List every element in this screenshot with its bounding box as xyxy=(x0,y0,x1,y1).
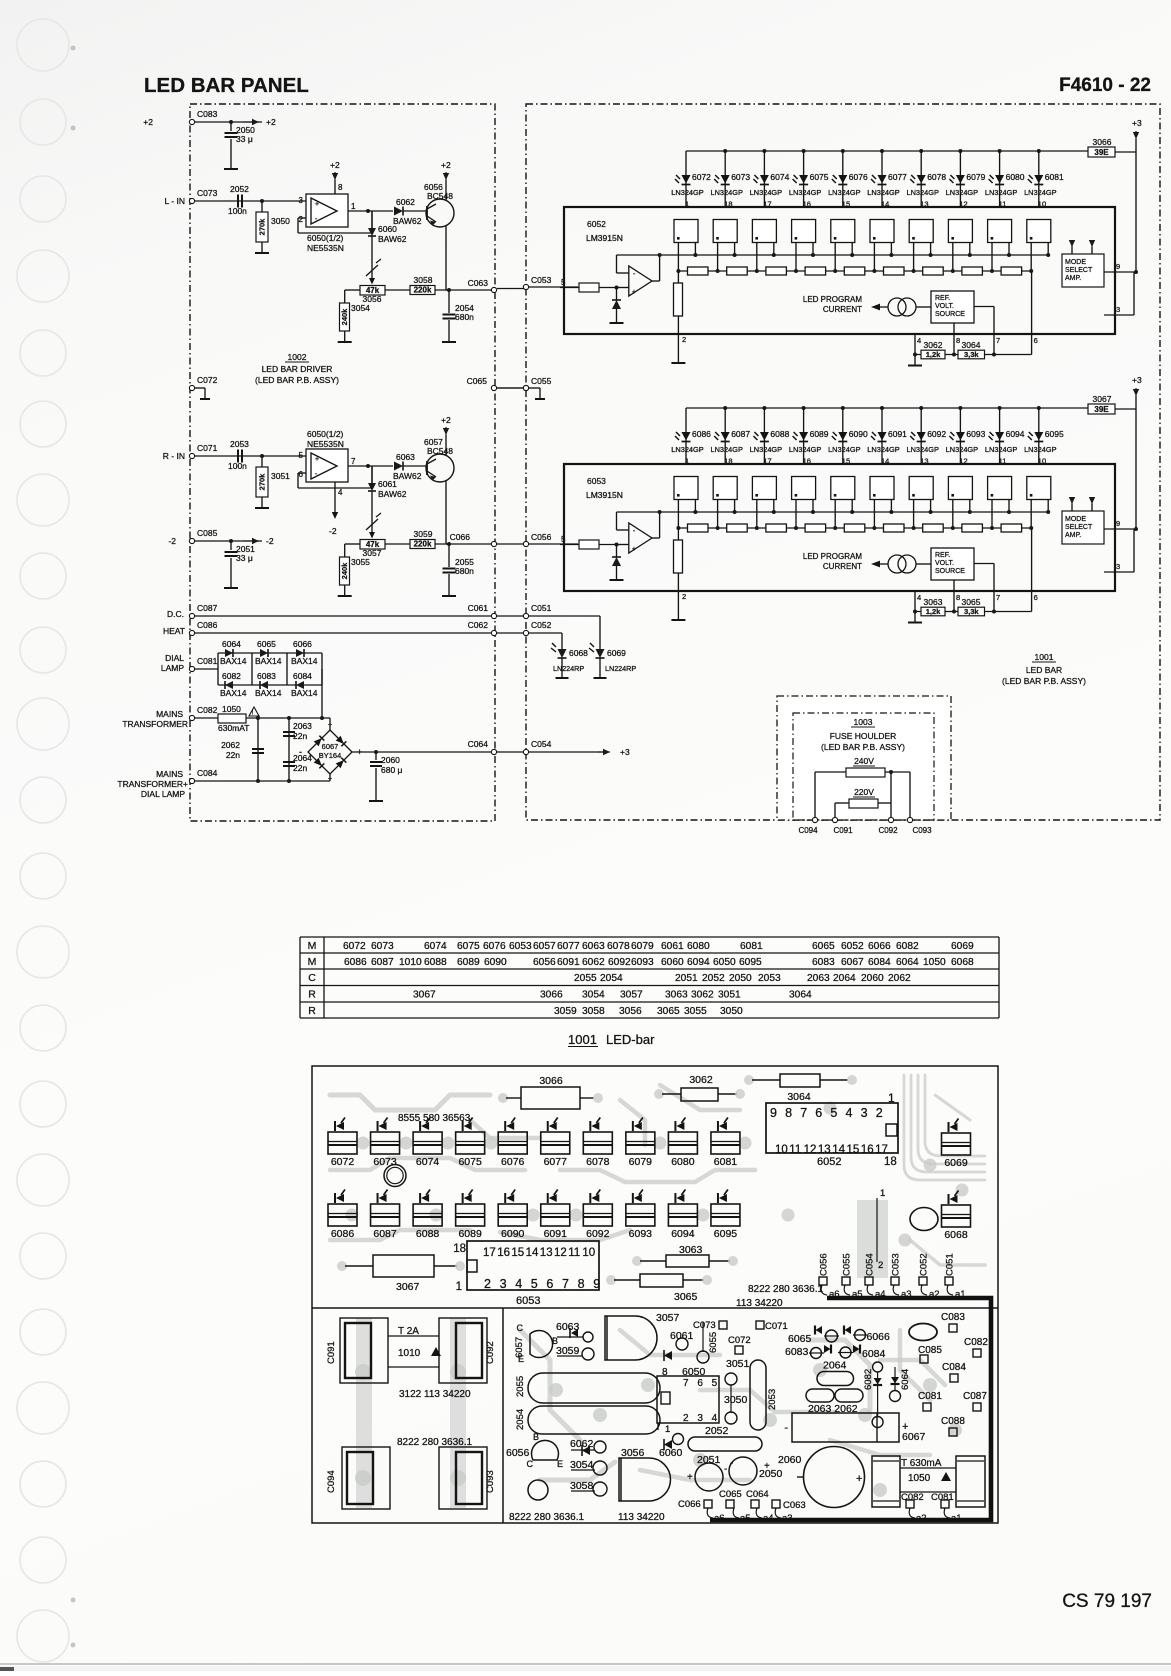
svg-text:17: 17 xyxy=(763,200,771,209)
svg-text:C082: C082 xyxy=(901,1492,924,1503)
svg-text:6095: 6095 xyxy=(739,957,762,968)
svg-text:+2: +2 xyxy=(266,117,276,127)
svg-text:3058: 3058 xyxy=(414,275,433,285)
svg-text:6076: 6076 xyxy=(501,1156,525,1168)
svg-text:16: 16 xyxy=(861,1144,874,1156)
svg-text:6094: 6094 xyxy=(671,1228,695,1240)
svg-text:C: C xyxy=(527,1459,534,1469)
svg-text:BAW62: BAW62 xyxy=(393,471,422,481)
svg-text:6086: 6086 xyxy=(692,429,711,439)
svg-text:LM3915N: LM3915N xyxy=(586,233,623,243)
svg-text:22n: 22n xyxy=(293,763,307,773)
svg-text:14: 14 xyxy=(832,1144,845,1156)
svg-text:6088: 6088 xyxy=(770,429,789,439)
svg-text:6073: 6073 xyxy=(373,1156,397,1168)
svg-text:6064: 6064 xyxy=(222,639,241,649)
svg-text:3055: 3055 xyxy=(351,557,370,567)
svg-text:D.C.: D.C. xyxy=(167,609,184,619)
svg-text:3058: 3058 xyxy=(582,1006,605,1017)
svg-text:REF.: REF. xyxy=(935,552,950,559)
svg-text:C082: C082 xyxy=(964,1337,988,1348)
svg-text:+2: +2 xyxy=(143,117,153,127)
svg-text:6077: 6077 xyxy=(557,941,580,952)
svg-text:6: 6 xyxy=(815,1106,822,1120)
svg-text:6069: 6069 xyxy=(944,1157,968,1169)
svg-text:C087: C087 xyxy=(963,1391,987,1402)
svg-text:C066: C066 xyxy=(678,1499,701,1510)
svg-text:3: 3 xyxy=(299,196,304,205)
svg-text:LED BAR PANEL: LED BAR PANEL xyxy=(144,74,309,97)
svg-text:3067: 3067 xyxy=(396,1281,420,1293)
svg-text:6082: 6082 xyxy=(222,671,241,681)
svg-text:6090: 6090 xyxy=(849,429,868,439)
svg-text:6076: 6076 xyxy=(849,172,868,182)
svg-text:8222 280 3636.1: 8222 280 3636.1 xyxy=(748,1284,824,1295)
svg-text:C064: C064 xyxy=(746,1489,769,1500)
svg-text:6092: 6092 xyxy=(608,957,631,968)
svg-text:3065: 3065 xyxy=(962,597,981,607)
svg-text:6089: 6089 xyxy=(457,957,480,968)
svg-text:39E: 39E xyxy=(1094,405,1109,414)
svg-text:6072: 6072 xyxy=(692,172,711,182)
svg-text:MAINS: MAINS xyxy=(156,709,183,719)
svg-text:~: ~ xyxy=(328,722,332,729)
svg-text:+2: +2 xyxy=(330,160,340,170)
svg-text:REF.: REF. xyxy=(935,295,950,302)
svg-text:6050: 6050 xyxy=(713,957,736,968)
svg-text:14: 14 xyxy=(881,457,889,466)
svg-text:C064: C064 xyxy=(468,739,489,749)
svg-text:6077: 6077 xyxy=(544,1156,568,1168)
svg-text:1: 1 xyxy=(685,457,689,466)
svg-text:1002: 1002 xyxy=(288,352,307,362)
svg-text:1,2k: 1,2k xyxy=(926,350,941,359)
svg-text:6: 6 xyxy=(1034,336,1038,345)
svg-text:1001: 1001 xyxy=(1035,652,1054,662)
svg-text:a6: a6 xyxy=(829,1289,840,1300)
svg-text:8: 8 xyxy=(785,1106,792,1120)
svg-text:6073: 6073 xyxy=(371,941,394,952)
svg-text:C061: C061 xyxy=(468,603,489,613)
svg-text:2054: 2054 xyxy=(600,973,623,984)
svg-text:2054: 2054 xyxy=(515,1409,526,1430)
svg-text:C055: C055 xyxy=(842,1253,853,1276)
svg-text:2055: 2055 xyxy=(574,973,597,984)
svg-text:6066: 6066 xyxy=(293,639,312,649)
svg-text:1050: 1050 xyxy=(908,1473,931,1484)
svg-text:(LED BAR P.B. ASSY): (LED BAR P.B. ASSY) xyxy=(255,375,339,385)
svg-text:BAX14: BAX14 xyxy=(291,656,318,666)
svg-text:16: 16 xyxy=(803,200,811,209)
svg-text:6078: 6078 xyxy=(586,1156,610,1168)
svg-text:6065: 6065 xyxy=(788,1333,812,1345)
svg-text:+: + xyxy=(632,546,636,553)
svg-text:LN324GP: LN324GP xyxy=(710,445,743,454)
svg-text:680n: 680n xyxy=(455,312,474,322)
svg-text:C083: C083 xyxy=(941,1312,965,1323)
svg-text:3056: 3056 xyxy=(621,1447,645,1459)
svg-text:C093: C093 xyxy=(485,1470,496,1493)
svg-text:+3: +3 xyxy=(1132,375,1142,385)
svg-text:3063: 3063 xyxy=(924,597,943,607)
svg-text:3064: 3064 xyxy=(787,1091,811,1103)
svg-text:C066: C066 xyxy=(450,532,471,542)
svg-text:CURRENT: CURRENT xyxy=(823,305,862,314)
svg-text:LED BAR DRIVER: LED BAR DRIVER xyxy=(262,364,333,374)
svg-text:1: 1 xyxy=(685,200,689,209)
svg-text:6064: 6064 xyxy=(896,957,919,968)
svg-text:220k: 220k xyxy=(414,540,432,549)
svg-text:2: 2 xyxy=(484,1277,491,1291)
svg-text:C072: C072 xyxy=(728,1335,751,1346)
svg-text:6087: 6087 xyxy=(371,957,394,968)
svg-text:C083: C083 xyxy=(197,109,218,119)
svg-text:220k: 220k xyxy=(414,286,432,295)
svg-text:3066: 3066 xyxy=(1093,137,1112,147)
svg-text:-2: -2 xyxy=(266,536,274,546)
svg-text:a2: a2 xyxy=(916,1513,927,1524)
svg-text:6094: 6094 xyxy=(687,957,710,968)
svg-text:R: R xyxy=(308,989,316,1001)
svg-text:6075: 6075 xyxy=(810,172,829,182)
svg-text:2: 2 xyxy=(682,592,686,601)
svg-text:1: 1 xyxy=(351,202,356,211)
svg-text:NE5535N: NE5535N xyxy=(307,439,344,449)
svg-text:4: 4 xyxy=(917,593,921,602)
svg-text:11: 11 xyxy=(999,200,1007,209)
svg-text:630mAT: 630mAT xyxy=(218,723,250,733)
svg-text:C063: C063 xyxy=(783,1500,806,1511)
svg-text:12: 12 xyxy=(959,200,967,209)
svg-text:6065: 6065 xyxy=(812,941,835,952)
svg-text:C054: C054 xyxy=(531,739,552,749)
svg-text:3051: 3051 xyxy=(271,471,290,481)
svg-text:6086: 6086 xyxy=(331,1228,355,1240)
svg-text:CS 79 197: CS 79 197 xyxy=(1062,1591,1152,1612)
svg-text:6084: 6084 xyxy=(293,671,312,681)
svg-text:6069: 6069 xyxy=(607,648,626,658)
svg-text:16: 16 xyxy=(497,1247,510,1259)
svg-text:6087: 6087 xyxy=(373,1228,397,1240)
svg-text:6081: 6081 xyxy=(740,941,763,952)
svg-text:a4: a4 xyxy=(875,1289,886,1300)
svg-text:-: - xyxy=(724,1464,727,1475)
svg-text:SOURCE: SOURCE xyxy=(935,311,965,318)
svg-text:8222 280 3636.1: 8222 280 3636.1 xyxy=(509,1512,585,1523)
svg-text:3054: 3054 xyxy=(351,303,370,313)
svg-text:8: 8 xyxy=(956,336,960,345)
svg-text:13: 13 xyxy=(920,457,928,466)
svg-text:a3: a3 xyxy=(901,1289,912,1300)
svg-text:LN224RP: LN224RP xyxy=(553,664,584,673)
svg-text:C071: C071 xyxy=(197,443,218,453)
svg-text:BAW62: BAW62 xyxy=(378,234,407,244)
svg-text:MODE: MODE xyxy=(1065,259,1086,266)
svg-text:1010: 1010 xyxy=(398,1348,421,1359)
svg-text:1: 1 xyxy=(880,1188,885,1199)
svg-text:+: + xyxy=(764,1461,770,1472)
svg-text:6067: 6067 xyxy=(841,957,864,968)
svg-text:6060: 6060 xyxy=(661,957,684,968)
svg-text:a3: a3 xyxy=(782,1513,793,1524)
svg-text:270k: 270k xyxy=(258,473,267,491)
svg-text:6080: 6080 xyxy=(1006,172,1025,182)
svg-text:+: + xyxy=(315,201,319,208)
svg-text:BAW62: BAW62 xyxy=(393,216,422,226)
svg-text:M: M xyxy=(308,940,317,952)
svg-text:E: E xyxy=(518,1354,524,1364)
svg-text:1: 1 xyxy=(456,1281,462,1293)
svg-text:3057: 3057 xyxy=(656,1312,680,1324)
svg-text:13: 13 xyxy=(540,1247,553,1259)
svg-text:C084: C084 xyxy=(942,1362,966,1373)
svg-text:BAX14: BAX14 xyxy=(220,656,247,666)
svg-text:6079: 6079 xyxy=(966,172,985,182)
svg-text:C093: C093 xyxy=(912,826,932,835)
svg-text:LN324GP: LN324GP xyxy=(867,445,900,454)
svg-text:12: 12 xyxy=(554,1247,567,1259)
svg-text:C051: C051 xyxy=(945,1253,956,1276)
svg-text:6055: 6055 xyxy=(708,1332,719,1353)
svg-text:DIAL: DIAL xyxy=(165,653,184,663)
svg-text:3066: 3066 xyxy=(540,990,563,1001)
svg-text:9: 9 xyxy=(1116,262,1120,271)
svg-text:B: B xyxy=(533,1432,539,1442)
svg-text:+2: +2 xyxy=(441,415,451,425)
svg-text:3054: 3054 xyxy=(570,1459,594,1471)
svg-text:15: 15 xyxy=(847,1144,860,1156)
svg-text:8555 580 36563: 8555 580 36563 xyxy=(398,1113,471,1124)
svg-text:LN324GP: LN324GP xyxy=(710,188,743,197)
svg-text:2060: 2060 xyxy=(861,973,884,984)
svg-text:C091: C091 xyxy=(833,826,853,835)
svg-text:BY164: BY164 xyxy=(319,751,342,760)
svg-text:BAX14: BAX14 xyxy=(220,688,247,698)
svg-text:MODE: MODE xyxy=(1065,516,1086,523)
svg-text:6068: 6068 xyxy=(951,957,974,968)
svg-text:6090: 6090 xyxy=(501,1228,525,1240)
svg-text:3055: 3055 xyxy=(684,1006,707,1017)
svg-text:6091: 6091 xyxy=(888,429,907,439)
svg-text:5: 5 xyxy=(561,535,566,544)
svg-text:3065: 3065 xyxy=(674,1291,698,1303)
svg-text:+: + xyxy=(856,1473,862,1485)
svg-text:270k: 270k xyxy=(258,218,267,236)
svg-text:6052: 6052 xyxy=(587,219,606,229)
svg-text:6083: 6083 xyxy=(785,1346,809,1358)
svg-text:R - IN: R - IN xyxy=(163,451,185,461)
svg-text:6050(1/2): 6050(1/2) xyxy=(307,233,344,243)
svg-text:6088: 6088 xyxy=(416,1228,440,1240)
svg-text:6083: 6083 xyxy=(812,957,835,968)
svg-text:3057: 3057 xyxy=(620,990,643,1001)
svg-text:3054: 3054 xyxy=(582,990,605,1001)
svg-text:LN324GP: LN324GP xyxy=(828,188,861,197)
svg-text:220V: 220V xyxy=(854,787,874,797)
svg-text:6062: 6062 xyxy=(396,197,415,207)
svg-text:6075: 6075 xyxy=(457,941,480,952)
svg-text:BC548: BC548 xyxy=(427,191,453,201)
svg-text:TRANSFORMER+: TRANSFORMER+ xyxy=(117,779,188,789)
svg-text:5: 5 xyxy=(299,451,304,460)
svg-text:6082: 6082 xyxy=(863,1369,874,1390)
svg-text:2: 2 xyxy=(682,335,686,344)
svg-text:2064: 2064 xyxy=(833,973,856,984)
svg-text:8: 8 xyxy=(338,183,343,192)
svg-text:3063: 3063 xyxy=(679,1244,703,1256)
svg-text:2050: 2050 xyxy=(729,973,752,984)
svg-text:6: 6 xyxy=(546,1277,553,1291)
svg-text:6072: 6072 xyxy=(331,1156,355,1168)
svg-text:2052: 2052 xyxy=(702,973,725,984)
svg-text:-: - xyxy=(730,1458,733,1469)
svg-text:C071: C071 xyxy=(765,1321,788,1332)
svg-text:6075: 6075 xyxy=(458,1156,482,1168)
svg-text:6089: 6089 xyxy=(810,429,829,439)
svg-text:C085: C085 xyxy=(197,528,218,538)
svg-text:6077: 6077 xyxy=(888,172,907,182)
svg-text:2: 2 xyxy=(299,215,304,224)
svg-text:6081: 6081 xyxy=(1045,172,1064,182)
svg-text:4: 4 xyxy=(917,336,921,345)
svg-text:C092: C092 xyxy=(878,826,898,835)
svg-text:11: 11 xyxy=(568,1247,580,1259)
svg-text:-2: -2 xyxy=(168,536,176,546)
svg-text:3056: 3056 xyxy=(619,1006,642,1017)
svg-text:6066: 6066 xyxy=(868,941,891,952)
svg-text:6088: 6088 xyxy=(424,957,447,968)
svg-text:+: + xyxy=(632,289,636,296)
svg-text:a1: a1 xyxy=(955,1289,966,1300)
svg-text:LN324GP: LN324GP xyxy=(789,445,822,454)
svg-text:6083: 6083 xyxy=(257,671,276,681)
svg-text:AMP.: AMP. xyxy=(1065,532,1081,539)
svg-text:3,3k: 3,3k xyxy=(964,350,979,359)
svg-text:2055: 2055 xyxy=(515,1376,526,1397)
svg-text:8: 8 xyxy=(956,593,960,602)
svg-text:6090: 6090 xyxy=(484,957,507,968)
svg-text:22n: 22n xyxy=(293,731,307,741)
svg-text:6078: 6078 xyxy=(607,941,630,952)
svg-text:6056: 6056 xyxy=(506,1447,530,1459)
svg-text:6053: 6053 xyxy=(587,476,606,486)
svg-text:3059: 3059 xyxy=(556,1345,580,1357)
svg-text:240k: 240k xyxy=(340,562,349,580)
svg-text:-: - xyxy=(299,747,302,757)
svg-text:LN324GP: LN324GP xyxy=(985,445,1018,454)
svg-text:LN324GP: LN324GP xyxy=(750,445,783,454)
svg-text:LN324GP: LN324GP xyxy=(867,188,900,197)
svg-text:6089: 6089 xyxy=(458,1228,482,1240)
svg-text:C081: C081 xyxy=(931,1492,954,1503)
svg-text:SOURCE: SOURCE xyxy=(935,568,965,575)
svg-text:3050: 3050 xyxy=(271,216,290,226)
svg-text:6: 6 xyxy=(1034,593,1038,602)
svg-text:6066: 6066 xyxy=(867,1331,891,1343)
svg-text:BAX14: BAX14 xyxy=(255,656,282,666)
svg-text:1010: 1010 xyxy=(399,957,422,968)
svg-text:39E: 39E xyxy=(1094,148,1109,157)
svg-text:C084: C084 xyxy=(197,768,218,778)
svg-text:C094: C094 xyxy=(326,1470,337,1493)
svg-text:22n: 22n xyxy=(226,750,240,760)
svg-text:3: 3 xyxy=(861,1106,868,1120)
svg-text:C: C xyxy=(308,972,316,984)
svg-text:LN324GP: LN324GP xyxy=(946,445,979,454)
svg-text:a4: a4 xyxy=(763,1513,774,1524)
svg-text:3059: 3059 xyxy=(554,1006,577,1017)
svg-text:6061: 6061 xyxy=(670,1330,694,1342)
svg-text:(LED BAR P.B. ASSY): (LED BAR P.B. ASSY) xyxy=(821,742,905,752)
svg-text:17: 17 xyxy=(483,1247,496,1259)
svg-text:3050: 3050 xyxy=(720,1006,743,1017)
svg-text:L - IN: L - IN xyxy=(165,196,185,206)
svg-text:3051: 3051 xyxy=(718,990,741,1001)
svg-text:1050: 1050 xyxy=(923,957,946,968)
svg-text:T 2A: T 2A xyxy=(398,1326,419,1337)
svg-text:6050(1/2): 6050(1/2) xyxy=(307,429,344,439)
svg-text:6092: 6092 xyxy=(927,429,946,439)
svg-text:9: 9 xyxy=(770,1106,777,1120)
svg-text:6080: 6080 xyxy=(671,1156,695,1168)
svg-text:2062: 2062 xyxy=(221,740,240,750)
svg-text:2052: 2052 xyxy=(705,1425,729,1437)
svg-text:LED PROGRAM: LED PROGRAM xyxy=(803,295,862,304)
svg-text:6087: 6087 xyxy=(731,429,750,439)
svg-text:2060: 2060 xyxy=(778,1454,802,1466)
svg-text:6068: 6068 xyxy=(569,648,588,658)
svg-text:100n: 100n xyxy=(228,461,247,471)
svg-text:6053: 6053 xyxy=(516,1295,540,1307)
svg-text:2051: 2051 xyxy=(697,1454,721,1466)
svg-text:E: E xyxy=(557,1459,563,1469)
svg-text:6081: 6081 xyxy=(714,1156,738,1168)
svg-text:7: 7 xyxy=(800,1106,807,1120)
svg-text:18: 18 xyxy=(453,1243,466,1255)
svg-text:C062: C062 xyxy=(468,620,489,630)
svg-text:2050: 2050 xyxy=(759,1468,783,1480)
svg-text:M: M xyxy=(308,956,317,968)
svg-text:LED PROGRAM: LED PROGRAM xyxy=(803,552,862,561)
svg-text:6068: 6068 xyxy=(944,1229,968,1241)
svg-text:LAMP: LAMP xyxy=(161,663,184,673)
svg-text:C065: C065 xyxy=(467,376,488,386)
svg-text:10: 10 xyxy=(582,1247,595,1259)
svg-text:C087: C087 xyxy=(197,603,218,613)
svg-text:LN324GP: LN324GP xyxy=(946,188,979,197)
svg-text:1050: 1050 xyxy=(222,704,241,714)
svg-text:-: - xyxy=(784,1422,788,1434)
svg-text:2064: 2064 xyxy=(823,1360,847,1372)
svg-text:6062: 6062 xyxy=(582,957,605,968)
svg-text:LED-bar: LED-bar xyxy=(606,1032,655,1047)
svg-text:LN324GP: LN324GP xyxy=(906,188,939,197)
svg-text:680 μ: 680 μ xyxy=(381,765,403,775)
svg-text:6079: 6079 xyxy=(629,1156,653,1168)
svg-text:BAX14: BAX14 xyxy=(255,688,282,698)
svg-text:3058: 3058 xyxy=(570,1480,594,1492)
svg-text:C082: C082 xyxy=(197,705,218,715)
svg-text:6095: 6095 xyxy=(714,1228,738,1240)
svg-text:C052: C052 xyxy=(531,620,552,630)
svg-text:6060: 6060 xyxy=(659,1447,683,1459)
svg-text:3067: 3067 xyxy=(1093,394,1112,404)
svg-text:10: 10 xyxy=(775,1144,788,1156)
svg-text:17: 17 xyxy=(875,1144,888,1156)
svg-text:6052: 6052 xyxy=(841,941,864,952)
svg-text:11: 11 xyxy=(789,1144,801,1156)
svg-text:6092: 6092 xyxy=(586,1228,610,1240)
